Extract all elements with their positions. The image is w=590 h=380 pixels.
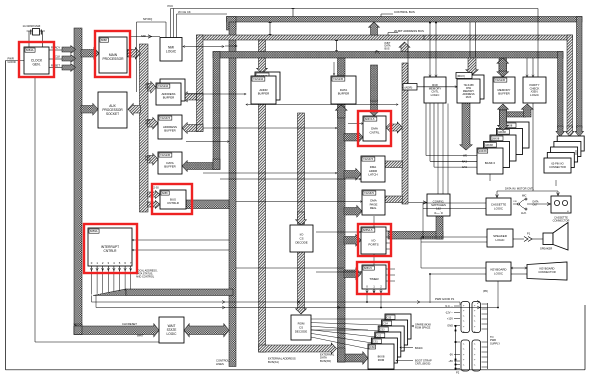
svg-text:74LS244: 74LS244: [158, 85, 169, 88]
svg-text:DATA IN / MOTOR CNTL: DATA IN / MOTOR CNTL: [505, 187, 535, 191]
svg-text:8253-5: 8253-5: [364, 267, 372, 270]
svg-text:PROCESSOR: PROCESSOR: [102, 57, 124, 61]
svg-text:PWR GOOD P1: PWR GOOD P1: [435, 297, 455, 301]
svg-text:74LS245: 74LS245: [333, 78, 344, 81]
svg-text:CS3: CS3: [380, 328, 385, 331]
svg-text:RAS: RAS: [462, 160, 467, 163]
svg-text:74LS373: 74LS373: [160, 117, 171, 120]
svg-text:LOGIC: LOGIC: [530, 93, 539, 97]
svg-text:14.31818 MHZ: 14.31818 MHZ: [23, 24, 41, 28]
svg-text:ROM SPACE: ROM SPACE: [415, 326, 431, 330]
svg-text:(ADR): (ADR): [405, 86, 413, 90]
svg-text:WE: WE: [463, 155, 467, 158]
svg-text:8284A: 8284A: [26, 48, 34, 52]
svg-text:BUFFER: BUFFER: [498, 92, 510, 96]
svg-text:P2: P2: [456, 371, 460, 375]
svg-text:AD7): AD7): [145, 158, 151, 161]
svg-text:SUPPLY: SUPPLY: [490, 341, 500, 345]
svg-text:16KX8: 16KX8: [485, 144, 493, 147]
svg-text:LOGIC: LOGIC: [431, 93, 440, 97]
svg-text:CONNECTOR: CONNECTOR: [553, 219, 570, 223]
svg-text:74LS373: 74LS373: [363, 158, 374, 161]
svg-text:LOGIC: LOGIC: [494, 206, 503, 210]
svg-text:-5V: -5V: [449, 353, 453, 357]
svg-text:ROM: ROM: [378, 358, 385, 362]
svg-text:8237A-5: 8237A-5: [365, 118, 375, 121]
svg-text:BUFFER: BUFFER: [164, 129, 176, 133]
svg-text:CNTRL: CNTRL: [369, 130, 379, 134]
svg-text:PWR: PWR: [8, 57, 14, 61]
svg-text:CONTROL BUS: CONTROL BUS: [394, 10, 415, 14]
svg-text:16KX8: 16KX8: [492, 138, 500, 141]
svg-text:(MUX): (MUX): [457, 74, 465, 78]
svg-text:DECODE: DECODE: [295, 329, 307, 333]
svg-text:(PD): (PD): [483, 290, 488, 293]
svg-text:PCK: PCK: [168, 4, 174, 8]
svg-text:GND: GND: [447, 324, 453, 328]
svg-text:AND CONTROL: AND CONTROL: [136, 276, 155, 279]
svg-text:8088: 8088: [101, 38, 107, 42]
svg-text:TIMER: TIMER: [369, 277, 379, 281]
svg-text:74LS670: 74LS670: [364, 192, 375, 195]
svg-text:62-PIN I/O: 62-PIN I/O: [551, 162, 563, 166]
svg-text:WAIT: WAIT: [137, 334, 144, 338]
svg-text:CNTRLR: CNTRLR: [104, 249, 118, 253]
svg-text:LATCH: LATCH: [368, 173, 377, 177]
svg-text:+5V: +5V: [448, 359, 453, 363]
svg-text:BUS: BUS: [385, 48, 390, 51]
svg-text:LOGIC: LOGIC: [494, 271, 503, 275]
svg-text:CAS: CAS: [462, 166, 467, 169]
svg-text:8255A-5: 8255A-5: [363, 229, 373, 232]
svg-text:CONNECTOR: CONNECTOR: [549, 165, 566, 169]
svg-text:CS1: CS1: [373, 340, 378, 343]
svg-text:20-BIT ADDRESS BUS: 20-BIT ADDRESS BUS: [394, 29, 424, 33]
svg-text:CLK/RESET: CLK/RESET: [122, 322, 137, 326]
svg-text:LOGIC: LOGIC: [167, 332, 178, 336]
svg-text:MIC: MIC: [522, 195, 527, 198]
svg-text:BUS(XD): BUS(XD): [320, 359, 331, 363]
svg-text:CS4: CS4: [383, 322, 388, 325]
svg-text:BANK 0: BANK 0: [485, 161, 496, 165]
svg-text:SOCKET: SOCKET: [106, 112, 119, 116]
svg-text:DECODE: DECODE: [295, 240, 307, 244]
svg-text:GEN.: GEN.: [32, 63, 40, 67]
svg-text:PORTS: PORTS: [368, 242, 378, 246]
svg-text:16KX8: 16KX8: [479, 150, 487, 153]
svg-text:P1: P1: [527, 232, 531, 236]
svg-text:BUFFER: BUFFER: [338, 92, 350, 96]
svg-text:AD7): AD7): [145, 122, 151, 125]
svg-text:CS0: CS0: [370, 346, 375, 349]
svg-text:BUS(XA): BUS(XA): [268, 360, 279, 364]
svg-text:8259A: 8259A: [90, 229, 98, 233]
svg-text:BUFFER: BUFFER: [164, 165, 176, 169]
svg-text:74LS245: 74LS245: [160, 154, 171, 157]
svg-text:SPEAKER: SPEAKER: [540, 247, 552, 251]
svg-text:AUX.: AUX.: [521, 212, 527, 215]
svg-text:74LS244: 74LS244: [253, 78, 264, 81]
svg-text:-12V --: -12V --: [445, 311, 453, 315]
svg-text:CLK: CLK: [55, 55, 60, 59]
svg-text:BUFFER: BUFFER: [258, 92, 270, 96]
svg-text:8288: 8288: [162, 192, 168, 195]
svg-text:REG.: REG.: [370, 206, 377, 210]
svg-text:CNTRLR: CNTRLR: [167, 201, 179, 205]
svg-text:FN: FN: [514, 201, 517, 203]
svg-text:CS5: CS5: [387, 316, 392, 319]
svg-text:RESET: RESET: [51, 64, 60, 68]
svg-text:A19): A19): [145, 86, 150, 89]
svg-text:74LS245: 74LS245: [495, 79, 506, 82]
svg-text:I/O CH CK: I/O CH CK: [178, 10, 191, 14]
svg-text:BASIC: BASIC: [415, 346, 423, 350]
svg-text:BUFFER: BUFFER: [163, 96, 175, 100]
svg-text:LOGIC: LOGIC: [496, 238, 505, 242]
svg-text:o—ʾo: o—ʾo: [434, 210, 442, 215]
svg-text:+12V: +12V: [447, 317, 453, 321]
svg-text:CS2: CS2: [376, 334, 381, 337]
svg-text:MUX: MUX: [466, 96, 472, 99]
svg-text:READY: READY: [51, 46, 60, 50]
svg-text:LOGIC: LOGIC: [166, 50, 177, 54]
svg-text:CONNECTOR: CONNECTOR: [538, 270, 555, 274]
svg-text:NMI: NMI: [141, 34, 146, 38]
svg-text:CNTL (BIOS): CNTL (BIOS): [415, 362, 430, 366]
svg-text:LINES: LINES: [216, 362, 224, 366]
svg-text:NP IRQ: NP IRQ: [143, 17, 152, 21]
svg-text:16KX8: 16KX8: [498, 131, 506, 134]
